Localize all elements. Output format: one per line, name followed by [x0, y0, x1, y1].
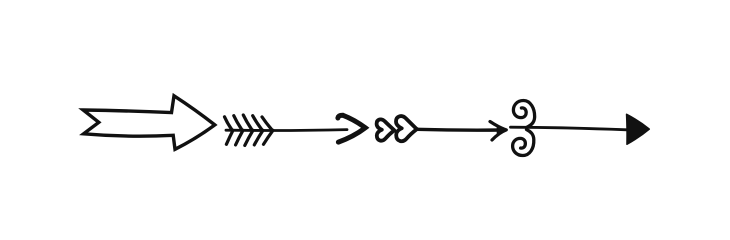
curl arrow: bottom spiral of 3-shape tail: [513, 130, 534, 156]
curl arrow shaft: [511, 127, 628, 130]
curl arrow solid triangular arrowhead: [627, 114, 650, 144]
big outlined block arrow: [83, 96, 215, 150]
curl arrow: top spiral of 3-shape tail: [513, 101, 534, 128]
hearts arrow barbed arrowhead: [490, 122, 506, 141]
feather fletching chevrons: [225, 115, 274, 145]
feather arrow shaft: [226, 128, 347, 132]
hearts arrow arrowhead tip fill: [497, 126, 506, 134]
hearts arrow: small heart 1: [377, 119, 395, 140]
feather arrow open arrowhead: [338, 115, 365, 142]
hearts arrow shaft: [417, 128, 502, 132]
hearts arrow: big heart 2: [396, 116, 417, 141]
